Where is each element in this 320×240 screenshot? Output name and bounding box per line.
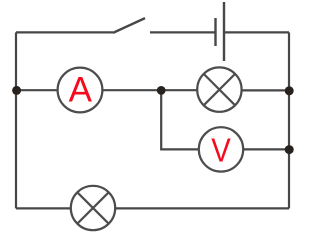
wire top-right segment: [224, 31, 289, 33]
battery B1: [216, 2, 225, 61]
lamp L1: [197, 67, 241, 111]
svg-text:A: A: [69, 70, 93, 109]
wire row2 left: [16, 89, 58, 91]
wire voltmeter branch vertical: [161, 90, 199, 149]
wire bottom left: [16, 207, 71, 209]
lamp L2: [71, 186, 115, 230]
voltmeter V: [199, 127, 243, 171]
wire right rail: [288, 32, 290, 208]
wire bottom right: [115, 207, 289, 209]
switch S1: [113, 18, 215, 33]
ammeter A: [58, 68, 103, 113]
node right rail voltmeter: [285, 145, 294, 154]
wire voltmeter to right rail: [243, 148, 289, 150]
svg-text:V: V: [211, 132, 231, 169]
wire row2 right: [242, 89, 289, 91]
node voltmeter branch: [157, 86, 166, 95]
wire top-left segment: [16, 31, 113, 33]
wire left rail: [15, 32, 17, 208]
node right rail row2: [285, 86, 294, 95]
node left rail row2: [12, 86, 21, 95]
wire row2 middle: [102, 89, 197, 91]
